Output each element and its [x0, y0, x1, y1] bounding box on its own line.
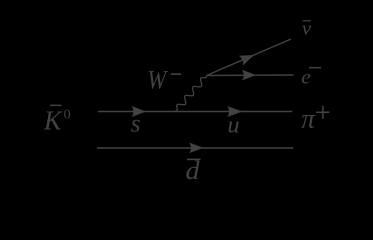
svg-text:π: π — [301, 104, 316, 134]
svg-text:ν: ν — [302, 19, 312, 39]
svg-text:K: K — [43, 106, 63, 137]
svg-text:s: s — [131, 111, 141, 138]
svg-text:d: d — [186, 156, 201, 185]
svg-text:u: u — [228, 113, 240, 139]
svg-text:W: W — [147, 64, 169, 94]
svg-text:0: 0 — [64, 108, 71, 123]
svg-text:e: e — [301, 64, 311, 88]
